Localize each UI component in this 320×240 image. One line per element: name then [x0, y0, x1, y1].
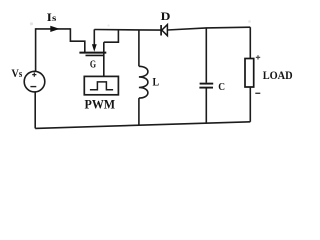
- plus sign at load: [256, 55, 260, 59]
- inductor L coil: [139, 66, 148, 98]
- scan speckle near top-left corner: [30, 22, 33, 25]
- svg-text:PWM: PWM: [85, 96, 116, 111]
- wire inductor to bottom rail: [138, 98, 140, 125]
- PWM box: [84, 76, 118, 94]
- load resistor box: [245, 59, 254, 88]
- wire right vertical from top corner to load: [249, 27, 251, 58]
- capacitor C top plate: [200, 83, 214, 85]
- transistor Q1 arrow lead: [93, 29, 95, 45]
- svg-text:Vs: Vs: [11, 66, 22, 80]
- minus sign inside source: [30, 86, 36, 88]
- diode D1 triangle: [162, 25, 168, 36]
- transistor Q1 gate bar: [86, 54, 105, 56]
- minus sign at load: [255, 92, 260, 94]
- gate wire down to PWM: [103, 42, 105, 76]
- wire step down to MOSFET source: [70, 28, 84, 52]
- wire Vs top vertical: [35, 28, 37, 71]
- svg-text:LOAD: LOAD: [263, 70, 293, 82]
- wire load to bottom rail: [249, 87, 251, 122]
- wire Vs bottom vertical: [34, 92, 36, 129]
- diode D1 cathode bar: [160, 25, 162, 36]
- svg-text:C: C: [218, 82, 225, 93]
- wire top from arrow junction to diode: [94, 29, 161, 32]
- capacitor C bottom plate: [199, 87, 213, 89]
- current arrow Is on top wire: [50, 26, 59, 32]
- scan speckle near stair wire: [107, 24, 109, 26]
- svg-text:D: D: [161, 9, 171, 23]
- capacitor branch bottom wire: [205, 89, 207, 124]
- transistor Q1 channel bar: [79, 52, 106, 54]
- node wire down to inductor: [138, 30, 140, 66]
- transistor Q1 arrowhead: [92, 44, 97, 52]
- voltage source Vs circle: [24, 71, 45, 92]
- svg-text:G: G: [90, 59, 96, 70]
- svg-text:Is: Is: [47, 12, 57, 24]
- wire from diode to top-right corner: [167, 27, 250, 30]
- capacitor branch top wire: [205, 28, 207, 82]
- scan speckle above top-right corner: [248, 20, 251, 23]
- wire top-left horizontal from Vs to switch: [36, 28, 71, 30]
- transistor Q1 drain stair wire: [104, 29, 119, 42]
- bottom rail wire: [35, 122, 250, 129]
- plus sign inside source: [32, 73, 36, 77]
- svg-text:L: L: [153, 75, 160, 89]
- PWM pulse waveform: [90, 82, 113, 90]
